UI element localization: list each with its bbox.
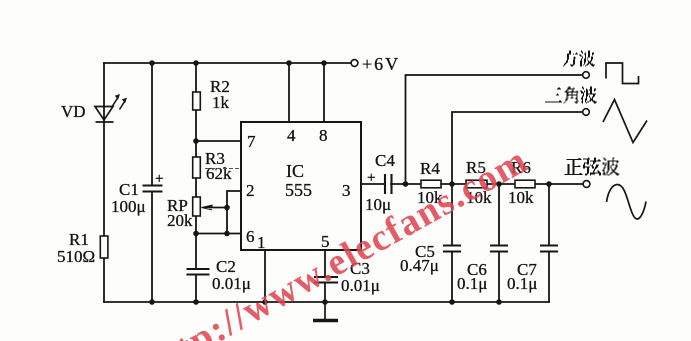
junction pin8 top rail (321, 60, 327, 66)
svg-text:2: 2 (246, 181, 255, 200)
label square wave (fang bo) (563, 51, 595, 67)
wire triangle-wave tap (452, 112, 583, 184)
junction C4 square-tap node (403, 181, 409, 187)
junction C2 bottom rail (193, 299, 199, 305)
svg-text:VD: VD (61, 102, 86, 121)
wire pin8 drop (323, 63, 325, 122)
capacitor C2 (187, 269, 210, 275)
svg-text:1: 1 (257, 233, 266, 252)
capacitor C1 (143, 186, 163, 192)
svg-text:C4: C4 (375, 151, 395, 170)
junction RP bottom node (193, 231, 199, 237)
wire C5 branch (451, 184, 453, 302)
capacitor C5 (443, 246, 461, 252)
junction C1 bottom rail (149, 299, 155, 305)
junction R6-C7 node (546, 181, 552, 187)
label sine wave (zheng xian bo) (565, 158, 620, 176)
node +6V terminal (351, 60, 358, 67)
junction pin1 bottom rail (262, 299, 268, 305)
svg-text:100μ: 100μ (111, 197, 146, 216)
wire pin1 drop (264, 250, 266, 302)
node sine-wave terminal (583, 181, 590, 188)
junction RP wiper node (224, 205, 230, 211)
svg-text:7: 7 (247, 132, 256, 151)
wiper arrow of RP (202, 205, 213, 210)
node square-wave terminal (583, 72, 590, 79)
svg-text:62k: 62k (206, 164, 232, 183)
IC U1 555 timer box (241, 122, 361, 250)
svg-text:+: + (155, 171, 163, 187)
svg-text:20k: 20k (167, 211, 193, 230)
wire pin6 link (196, 233, 241, 235)
svg-text:0.1μ: 0.1μ (507, 274, 537, 293)
junction wiper-pin6 node (224, 231, 230, 237)
junction R4-C5 triangle-tap node (449, 181, 455, 187)
svg-text:8: 8 (319, 126, 328, 145)
wire pin7 to divider (196, 140, 241, 142)
resistor R4 (421, 180, 441, 188)
svg-text:0.47μ: 0.47μ (400, 256, 439, 275)
node triangle-wave terminal (583, 109, 590, 116)
wire bottom rail (104, 301, 549, 303)
junction C5 bottom rail (449, 299, 455, 305)
diode VD (95, 94, 127, 122)
wire top supply rail (104, 62, 351, 64)
junction R5-C6 node (496, 181, 502, 187)
svg-text:3: 3 (342, 181, 351, 200)
svg-text:0.1μ: 0.1μ (457, 274, 487, 293)
svg-text:+6V: +6V (362, 54, 400, 74)
potentiometer RP (193, 197, 201, 216)
junction pin4 top rail (286, 60, 292, 66)
svg-text:+: + (367, 170, 375, 186)
junction C3-ground bottom rail (322, 299, 328, 305)
svg-text:1k: 1k (212, 93, 230, 112)
resistor R5 (466, 180, 487, 188)
wire C1 branch (151, 63, 153, 302)
capacitor C6 (490, 246, 508, 252)
wire pin5-C3 drop (324, 250, 326, 302)
wire pin4 drop (288, 63, 290, 122)
wire C7 branch (548, 184, 550, 302)
capacitor C3 (314, 277, 338, 283)
wire C6 branch (498, 184, 500, 302)
wire pin2 link (227, 191, 241, 234)
ground (313, 302, 338, 321)
wire left vertical branch (103, 63, 105, 302)
svg-text:510Ω: 510Ω (57, 247, 95, 266)
svg-text:R4: R4 (420, 159, 440, 178)
junction R2-R3-pin7 node (193, 138, 199, 144)
wire square-wave tap (406, 75, 583, 184)
svg-text:4: 4 (287, 126, 296, 145)
svg-text:10k: 10k (508, 188, 534, 207)
resistor R2 (193, 92, 201, 110)
strike artifact over 62k (205, 168, 243, 170)
triangle wave glyph (603, 100, 647, 143)
svg-text:555: 555 (285, 180, 312, 200)
junction C6 bottom rail (496, 299, 502, 305)
resistor R3 (193, 157, 201, 178)
square wave glyph (606, 63, 639, 84)
wire pin3 output line (361, 183, 583, 185)
resistor R6 (515, 180, 535, 188)
resistor R1 (100, 236, 108, 258)
wire R2-R3-RP-C2 branch (195, 63, 197, 302)
junction R2 top rail (193, 60, 199, 66)
junction C1 top rail (149, 60, 155, 66)
svg-text:IC: IC (286, 161, 304, 181)
sine wave glyph (607, 185, 647, 220)
capacitor C7 (540, 246, 558, 252)
svg-text:6: 6 (246, 227, 255, 246)
wire RP wiper (210, 207, 227, 209)
label triangle wave (san jiao bo) (545, 87, 597, 104)
capacitor C4 (385, 174, 392, 194)
